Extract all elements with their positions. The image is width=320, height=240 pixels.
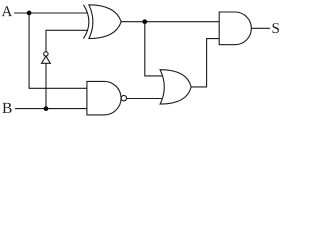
wire XOR junction down to OR top input [145, 22, 163, 76]
OR gate U3 [160, 70, 191, 104]
svg-text:S: S [271, 21, 279, 37]
svg-text:A: A [1, 4, 12, 20]
XOR gate U1 [84, 5, 122, 39]
NAND gate U2 [87, 81, 127, 115]
wire A to XOR top input [14, 12, 88, 14]
node A junction [27, 11, 32, 16]
AND gate U4 [219, 12, 251, 45]
wire B to NAND bottom input [15, 108, 87, 110]
inverter NOT gate pointing up [42, 52, 51, 64]
wire B junction up to inverter input [45, 63, 47, 108]
wire AND output to S [251, 27, 270, 29]
node XOR output junction [142, 19, 147, 24]
svg-text:B: B [2, 100, 12, 117]
wire XOR output to AND top input [121, 21, 219, 23]
wire OR output up to AND bottom input [191, 39, 219, 87]
wire A junction down and right to NAND top input [29, 13, 87, 88]
wire NAND output to OR bottom input [127, 98, 163, 100]
wire inverter output up and right to XOR bottom input [46, 30, 88, 51]
node B junction [44, 106, 49, 111]
